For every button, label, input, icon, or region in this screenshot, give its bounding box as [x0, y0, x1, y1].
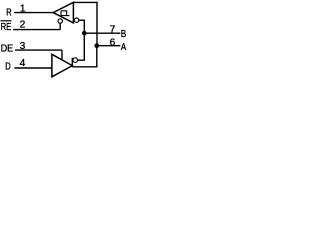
driver inverted output bubble [73, 58, 78, 63]
receiver U1a triangle [53, 2, 73, 23]
svg-text:6: 6 [110, 38, 116, 49]
receiver inverting input bubble [74, 18, 78, 22]
svg-text:R: R [6, 7, 11, 18]
receiver enable bubble [58, 19, 62, 23]
wire DE pin3 [15, 49, 62, 51]
wire receiver top input to A column [73, 2, 97, 45]
RE overline [1, 20, 12, 22]
junction dot A [94, 43, 99, 48]
wire D pin4 [14, 67, 52, 69]
driver U1b triangle [52, 54, 72, 77]
wire driver output to A column [72, 46, 97, 67]
svg-text:7: 7 [110, 24, 116, 35]
wire driver inverted output to B column [77, 33, 84, 60]
junction dot B [82, 31, 87, 36]
driver output bar [71, 58, 73, 67]
wire A line pin6 [97, 45, 121, 47]
svg-text:RE: RE [1, 22, 12, 33]
wire RE pin2 [13, 29, 60, 31]
svg-text:A: A [121, 42, 127, 53]
hysteresis symbol [61, 11, 69, 16]
wire B line pin7 [84, 32, 120, 34]
wire DE enable stub [61, 50, 63, 60]
wire R pin1 [14, 12, 54, 14]
svg-text:B: B [121, 29, 127, 40]
svg-text:DE: DE [1, 44, 14, 55]
svg-text:D: D [5, 61, 11, 72]
wire RE enable stub [59, 22, 61, 30]
wire receiver inverting input to B column [79, 20, 85, 33]
